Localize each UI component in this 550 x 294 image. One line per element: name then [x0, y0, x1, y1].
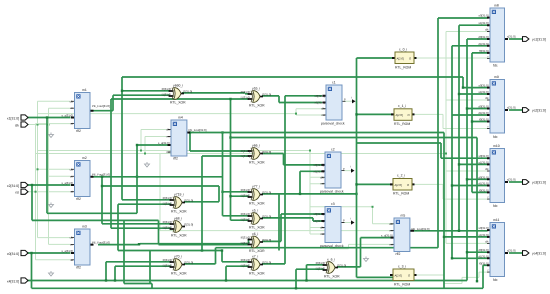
svg-text:s0[31:0]: s0[31:0] [479, 226, 489, 230]
svg-text:x0[31:0]: x0[31:0] [314, 212, 324, 216]
wire y660 I0 vertical net and top bus [121, 77, 488, 200]
svg-text:I1[31:0]: I1[31:0] [241, 241, 251, 245]
svg-text:I0[31:0]: I0[31:0] [241, 212, 251, 216]
svg-text:m11: m11 [493, 218, 499, 222]
svg-text:x_6_i: x_6_i [327, 258, 335, 262]
svg-text:RTL_XOR: RTL_XOR [249, 249, 265, 253]
wire rst net left trunk [28, 124, 71, 260]
wire m8 output to port [509, 38, 523, 40]
svg-text:I1[31:0]: I1[31:0] [163, 226, 173, 230]
svg-text:O[31:0]: O[31:0] [262, 238, 271, 242]
wire x6b output to m5 s_a [337, 238, 394, 267]
svg-text:y68_i: y68_i [174, 217, 182, 221]
svg-text:c3: c3 [331, 202, 335, 206]
svg-text:x2[31:0]: x2[31:0] [7, 184, 19, 188]
output block m10 (fdc) [478, 144, 515, 208]
svg-text:RTL_XOR: RTL_XOR [249, 226, 265, 230]
svg-text:I1[31:0]: I1[31:0] [316, 267, 326, 271]
wire x4 bus net bottom [28, 39, 488, 281]
svg-text:clk: clk [70, 236, 74, 240]
svg-text:x1[31:0]: x1[31:0] [315, 101, 325, 105]
svg-text:y66_i: y66_i [252, 144, 260, 148]
ground symbol below m1 [49, 133, 54, 138]
svg-text:s_a[31:0]: s_a[31:0] [61, 249, 73, 253]
ground symbol below m2 [49, 203, 54, 208]
svg-text:I1[31:0]: I1[31:0] [241, 194, 251, 198]
svg-text:fdc: fdc [493, 278, 498, 282]
svg-text:parseval_check: parseval_check [320, 244, 344, 248]
wire y66 output to c2 x0 [262, 154, 322, 165]
ROM c_1_i [391, 104, 415, 126]
svg-text:s1[31:0]: s1[31:0] [479, 90, 489, 94]
svg-text:s_a[31:0]: s_a[31:0] [158, 141, 170, 145]
svg-text:RTL_XOR: RTL_XOR [171, 234, 187, 238]
svg-text:clk: clk [485, 28, 489, 32]
svg-text:r: r [488, 54, 489, 58]
svg-text:rst: rst [320, 182, 323, 186]
wire clk distribution horizontal run [38, 109, 329, 234]
junction dots cluster [443, 236, 445, 238]
svg-text:x0[31:0]: x0[31:0] [7, 252, 19, 256]
ROM c_0_i [392, 48, 417, 70]
wire m4 output bus 132.5 [187, 131, 488, 288]
svg-text:m5: m5 [401, 214, 406, 218]
svg-text:I1[31:0]: I1[31:0] [241, 218, 251, 222]
ground symbol below m3 [49, 271, 54, 276]
svg-text:y70_i: y70_i [174, 255, 182, 259]
svg-text:RTL_XOR: RTL_XOR [171, 272, 187, 276]
wire x7 chain to c1 x0 [262, 96, 322, 264]
svg-text:clk: clk [389, 222, 393, 226]
svg-text:c_1_i: c_1_i [398, 104, 406, 108]
svg-text:x1[31:0]: x1[31:0] [7, 117, 19, 121]
svg-text:fdc: fdc [493, 64, 498, 68]
svg-text:O[31:0]: O[31:0] [262, 215, 271, 219]
svg-text:rst: rst [166, 150, 169, 154]
svg-text:I0[31:0]: I0[31:0] [163, 220, 173, 224]
wire y66 I1 feed [202, 156, 249, 251]
svg-text:s_a[31:0]: s_a[31:0] [61, 181, 73, 185]
XOR gate y719_i [163, 193, 194, 214]
svg-text:I0[31:0]: I0[31:0] [241, 188, 251, 192]
wire m5 clk en rst nets [160, 154, 394, 249]
svg-text:s1[31:0]: s1[31:0] [479, 233, 489, 237]
output port yc4[31:0] [523, 251, 546, 256]
parseval_check c2 [314, 148, 355, 194]
svg-text:O[31:0]: O[31:0] [262, 261, 271, 265]
wire m4 clk net [140, 130, 167, 152]
svg-text:s0[31:0]: s0[31:0] [479, 14, 489, 18]
svg-text:x[31:0]: x[31:0] [507, 249, 516, 253]
wire clk net left trunk [28, 101, 71, 237]
output port yc3[31:0] [523, 180, 546, 185]
svg-text:A[2:0]: A[2:0] [397, 56, 405, 60]
svg-text:A[2:0]: A[2:0] [396, 113, 404, 117]
svg-text:I1[31:0]: I1[31:0] [163, 264, 173, 268]
wire x6 output to c3 x0 [262, 214, 322, 241]
svg-text:I1[31:0]: I1[31:0] [241, 96, 251, 100]
svg-text:A[2:0]: A[2:0] [395, 183, 403, 187]
parseval_check c1 [315, 81, 356, 126]
svg-text:I0[31:0]: I0[31:0] [241, 236, 251, 240]
wire x1 bus net [28, 99, 250, 228]
wire m3 output stub run [98, 244, 249, 284]
svg-text:c1: c1 [332, 81, 336, 85]
svg-text:s_a[31:0]: s_a[31:0] [381, 234, 393, 238]
svg-text:x0[31:0]: x0[31:0] [315, 94, 325, 98]
svg-text:m9: m9 [494, 75, 499, 79]
svg-text:d0[31:0]: d0[31:0] [478, 175, 488, 179]
svg-text:f0[31:0]: f0[31:0] [479, 49, 489, 53]
svg-text:clk: clk [485, 167, 489, 171]
svg-text:m4: m4 [178, 116, 183, 120]
svg-text:I0[31:0]: I0[31:0] [162, 87, 172, 91]
output block m8 (fdc) [478, 4, 515, 68]
wire x7 I0 I1 feeds [201, 249, 249, 281]
wire y77 output to trunk and c2 x1 [223, 133, 358, 251]
svg-text:fdc: fdc [493, 204, 498, 208]
svg-text:PE_Fout[31:0]: PE_Fout[31:0] [412, 227, 430, 231]
XOR gate y55_i [241, 87, 272, 108]
svg-text:parseval_check: parseval_check [321, 122, 345, 126]
svg-text:d1[31:0]: d1[31:0] [478, 111, 488, 115]
svg-text:RTL_ROM: RTL_ROM [394, 122, 410, 126]
input port rst [15, 189, 28, 195]
input port x2[31:0] [7, 182, 28, 188]
svg-text:RTL_ROM: RTL_ROM [393, 192, 409, 196]
svg-text:RTL_XOR: RTL_XOR [249, 161, 265, 165]
svg-text:c_0_i: c_0_i [399, 48, 407, 52]
svg-text:c_3_i: c_3_i [398, 265, 406, 269]
svg-text:x0[31:0]: x0[31:0] [314, 163, 324, 167]
svg-text:x[31:0]: x[31:0] [507, 106, 516, 110]
svg-text:yc2[31:0]: yc2[31:0] [532, 109, 546, 113]
svg-text:x6_i: x6_i [252, 232, 258, 236]
svg-text:r: r [488, 125, 489, 129]
svg-text:rst: rst [389, 242, 392, 246]
wire m9 output to port [509, 109, 523, 111]
svg-text:en: en [70, 242, 74, 246]
svg-text:s1[31:0]: s1[31:0] [479, 160, 489, 164]
XOR gate x6_i [241, 232, 272, 253]
svg-text:RTL_ROM: RTL_ROM [394, 283, 410, 287]
svg-text:I1[31:0]: I1[31:0] [241, 154, 251, 158]
wire y68 I0 feed [94, 176, 223, 224]
input port x1[31:0] [7, 115, 28, 121]
svg-text:m3: m3 [82, 225, 87, 229]
svg-text:PE_Fout[31:0]: PE_Fout[31:0] [189, 128, 207, 132]
svg-text:O[31:0]: O[31:0] [262, 93, 271, 97]
wire y719 output to bus 137.5 [184, 138, 477, 282]
svg-text:s1[31:0]: s1[31:0] [479, 21, 489, 25]
wire y68 I1 feed [111, 220, 171, 288]
svg-text:x5_i: x5_i [252, 209, 258, 213]
flip-flop m1 (rff2) [61, 88, 110, 133]
svg-text:yc3[31:0]: yc3[31:0] [532, 181, 546, 185]
svg-text:f0[31:0]: f0[31:0] [479, 188, 489, 192]
wire c_2 ROM to d2 column [471, 53, 488, 193]
wire mid bus 143 [357, 143, 488, 158]
flip-flop m3 (rff2) [61, 225, 110, 270]
svg-text:O[31:0]: O[31:0] [184, 261, 193, 265]
svg-text:y77_i: y77_i [252, 185, 260, 189]
output port yc1[31:0] [523, 37, 546, 42]
svg-text:I1[31:0]: I1[31:0] [162, 93, 172, 97]
svg-text:parseval_check: parseval_check [320, 190, 344, 194]
svg-text:yc1[31:0]: yc1[31:0] [532, 38, 546, 42]
svg-text:PE_Fout[31:0]: PE_Fout[31:0] [92, 104, 110, 108]
input port x0[31:0] [7, 250, 28, 256]
wire ROM c_2_i output net [414, 184, 492, 199]
XOR gate y660_i [162, 84, 193, 105]
svg-text:O[31:0]: O[31:0] [262, 191, 271, 195]
svg-text:d0[31:0]: d0[31:0] [478, 35, 488, 39]
flip-flop m4 (rff2) [158, 116, 207, 161]
svg-text:I0[31:0]: I0[31:0] [163, 196, 173, 200]
wire x6b I0 I1 feeds from bottom buses [295, 265, 324, 290]
svg-text:I0[31:0]: I0[31:0] [241, 149, 251, 153]
svg-text:x1[31:0]: x1[31:0] [314, 219, 324, 223]
svg-text:I1[31:0]: I1[31:0] [241, 264, 251, 268]
svg-text:RTL_XOR: RTL_XOR [171, 210, 187, 214]
svg-text:f0[31:0]: f0[31:0] [479, 118, 489, 122]
svg-text:m1: m1 [82, 88, 87, 92]
svg-text:rst: rst [70, 190, 73, 194]
ROM c_2_i [390, 174, 415, 196]
svg-text:clk: clk [485, 239, 489, 243]
svg-text:clk: clk [485, 96, 489, 100]
svg-text:I0[31:0]: I0[31:0] [241, 90, 251, 94]
svg-text:rff2: rff2 [173, 157, 178, 161]
svg-text:RTL_XOR: RTL_XOR [170, 101, 186, 105]
parseval_check c3 [314, 202, 355, 248]
svg-text:RTL_XOR: RTL_XOR [324, 275, 340, 279]
svg-text:en: en [389, 229, 393, 233]
svg-text:en: en [70, 106, 74, 110]
svg-text:I0[31:0]: I0[31:0] [163, 258, 173, 262]
wire x5 I0 I1 feeds [221, 98, 249, 220]
wire parseval p nets [343, 101, 352, 222]
svg-text:m2: m2 [82, 156, 87, 160]
ground symbol below m4 [145, 162, 150, 167]
svg-text:y719_i: y719_i [174, 193, 184, 197]
svg-text:m10: m10 [493, 144, 500, 148]
svg-text:rst: rst [321, 113, 324, 117]
wire m11 output to port [509, 252, 523, 254]
svg-text:rff2: rff2 [396, 252, 401, 256]
input port clk [15, 122, 28, 128]
wire en net left trunk [49, 108, 71, 244]
wire m1 output to y660 I1 [90, 95, 170, 111]
svg-text:d1[31:0]: d1[31:0] [478, 42, 488, 46]
svg-text:RTL_XOR: RTL_XOR [249, 104, 265, 108]
svg-text:clk: clk [320, 175, 324, 179]
wire m5 output to channel [414, 25, 488, 232]
wire y55 output to c1 x1 [262, 96, 322, 103]
svg-text:m8: m8 [494, 4, 499, 8]
wire y660 output to y55 I0 [182, 92, 249, 95]
XOR gate y66_i [241, 144, 272, 165]
wire rst distribution horizontal run [36, 137, 447, 155]
svg-text:d1[31:0]: d1[31:0] [478, 182, 488, 186]
wire y70 output chain to top right bus [184, 18, 488, 264]
ground symbol below m5 [364, 257, 369, 262]
input port x4[31:0] [7, 278, 28, 284]
svg-text:rst: rst [70, 258, 73, 262]
svg-text:RTL_XOR: RTL_XOR [249, 272, 265, 276]
svg-text:O[31:0]: O[31:0] [262, 150, 271, 154]
svg-text:O[31:0]: O[31:0] [183, 90, 192, 94]
svg-text:yc4[31:0]: yc4[31:0] [532, 252, 546, 256]
svg-text:en: en [166, 135, 170, 139]
svg-text:c_2_i: c_2_i [397, 174, 405, 178]
svg-text:clk: clk [70, 167, 74, 171]
wire ROM c_1_i output net [414, 114, 492, 128]
svg-text:r: r [488, 268, 489, 272]
wire x5 output to c3 x1 [262, 218, 322, 221]
output port yc2[31:0] [523, 108, 546, 113]
svg-text:rff2: rff2 [76, 197, 81, 201]
svg-text:rff2: rff2 [76, 266, 81, 270]
svg-text:d1[31:0]: d1[31:0] [478, 254, 488, 258]
svg-text:x1[31:0]: x1[31:0] [314, 169, 324, 173]
XOR gate y77_i [241, 185, 272, 206]
wire c_1 ROM to d1 column [451, 46, 488, 260]
svg-text:x[31:0]: x[31:0] [507, 35, 516, 39]
XOR gate y70_i [163, 255, 194, 276]
output block m9 (fdc) [478, 75, 515, 139]
output block m11 (fdc) [478, 218, 515, 282]
svg-text:clk: clk [15, 124, 19, 128]
svg-text:d0[31:0]: d0[31:0] [478, 248, 488, 252]
wire ROM c_3_i output net [414, 272, 492, 283]
flip-flop m5 (rff2) [381, 214, 430, 257]
svg-text:O[31:0]: O[31:0] [184, 199, 193, 203]
svg-text:fdc: fdc [493, 135, 498, 139]
XOR gate x7_i [241, 255, 272, 276]
svg-text:rst: rst [15, 191, 19, 195]
ROM c_3_i [390, 265, 417, 287]
wire y70 I0 I1 feeds [106, 262, 171, 281]
XOR gate y68_i [163, 217, 194, 238]
svg-text:d0[31:0]: d0[31:0] [478, 105, 488, 109]
svg-text:rff2: rff2 [76, 129, 81, 133]
svg-text:c2: c2 [331, 148, 335, 152]
flip-flop m2 (rff2) [61, 156, 110, 201]
svg-text:f0[31:0]: f0[31:0] [479, 261, 489, 265]
svg-text:clk: clk [321, 107, 325, 111]
svg-text:clk: clk [70, 99, 74, 103]
wire ROM c_0_i output net [416, 57, 492, 59]
svg-text:rst: rst [70, 122, 73, 126]
svg-text:clk: clk [166, 128, 170, 132]
wire ROM trunk vertical [355, 58, 395, 277]
svg-text:en: en [70, 174, 74, 178]
wire x0 bus net [28, 252, 488, 288]
XOR gate x5_i [241, 209, 272, 230]
svg-text:s0[31:0]: s0[31:0] [479, 154, 489, 158]
svg-text:s_a[31:0]: s_a[31:0] [61, 114, 73, 118]
svg-text:RTL_ROM: RTL_ROM [395, 66, 411, 70]
svg-text:PE_Fout[31:0]: PE_Fout[31:0] [92, 172, 110, 176]
svg-text:RTL_XOR: RTL_XOR [249, 202, 265, 206]
wire x2 bus net [28, 184, 250, 245]
svg-text:x[31:0]: x[31:0] [507, 178, 516, 182]
svg-text:A[2:0]: A[2:0] [395, 273, 403, 277]
svg-text:s0[31:0]: s0[31:0] [479, 84, 489, 88]
XOR gate x_6_i [316, 258, 347, 279]
svg-text:clk: clk [320, 226, 324, 230]
svg-text:rst: rst [320, 232, 323, 236]
svg-text:O[31:0]: O[31:0] [184, 223, 193, 227]
svg-text:O[31:0]: O[31:0] [337, 264, 346, 268]
svg-text:I0[31:0]: I0[31:0] [241, 258, 251, 262]
wire channel clk trunk [445, 32, 488, 244]
wire y719 I1 feed [118, 204, 222, 250]
svg-text:x7_i: x7_i [252, 255, 258, 259]
svg-text:I0[31:0]: I0[31:0] [316, 261, 326, 265]
svg-text:I1[31:0]: I1[31:0] [163, 202, 173, 206]
svg-text:y55_i: y55_i [252, 87, 260, 91]
svg-text:y660_i: y660_i [173, 84, 183, 88]
wire m10 output to port [509, 181, 523, 183]
svg-text:x4[31:0]: x4[31:0] [7, 280, 19, 284]
svg-text:r: r [488, 195, 489, 199]
